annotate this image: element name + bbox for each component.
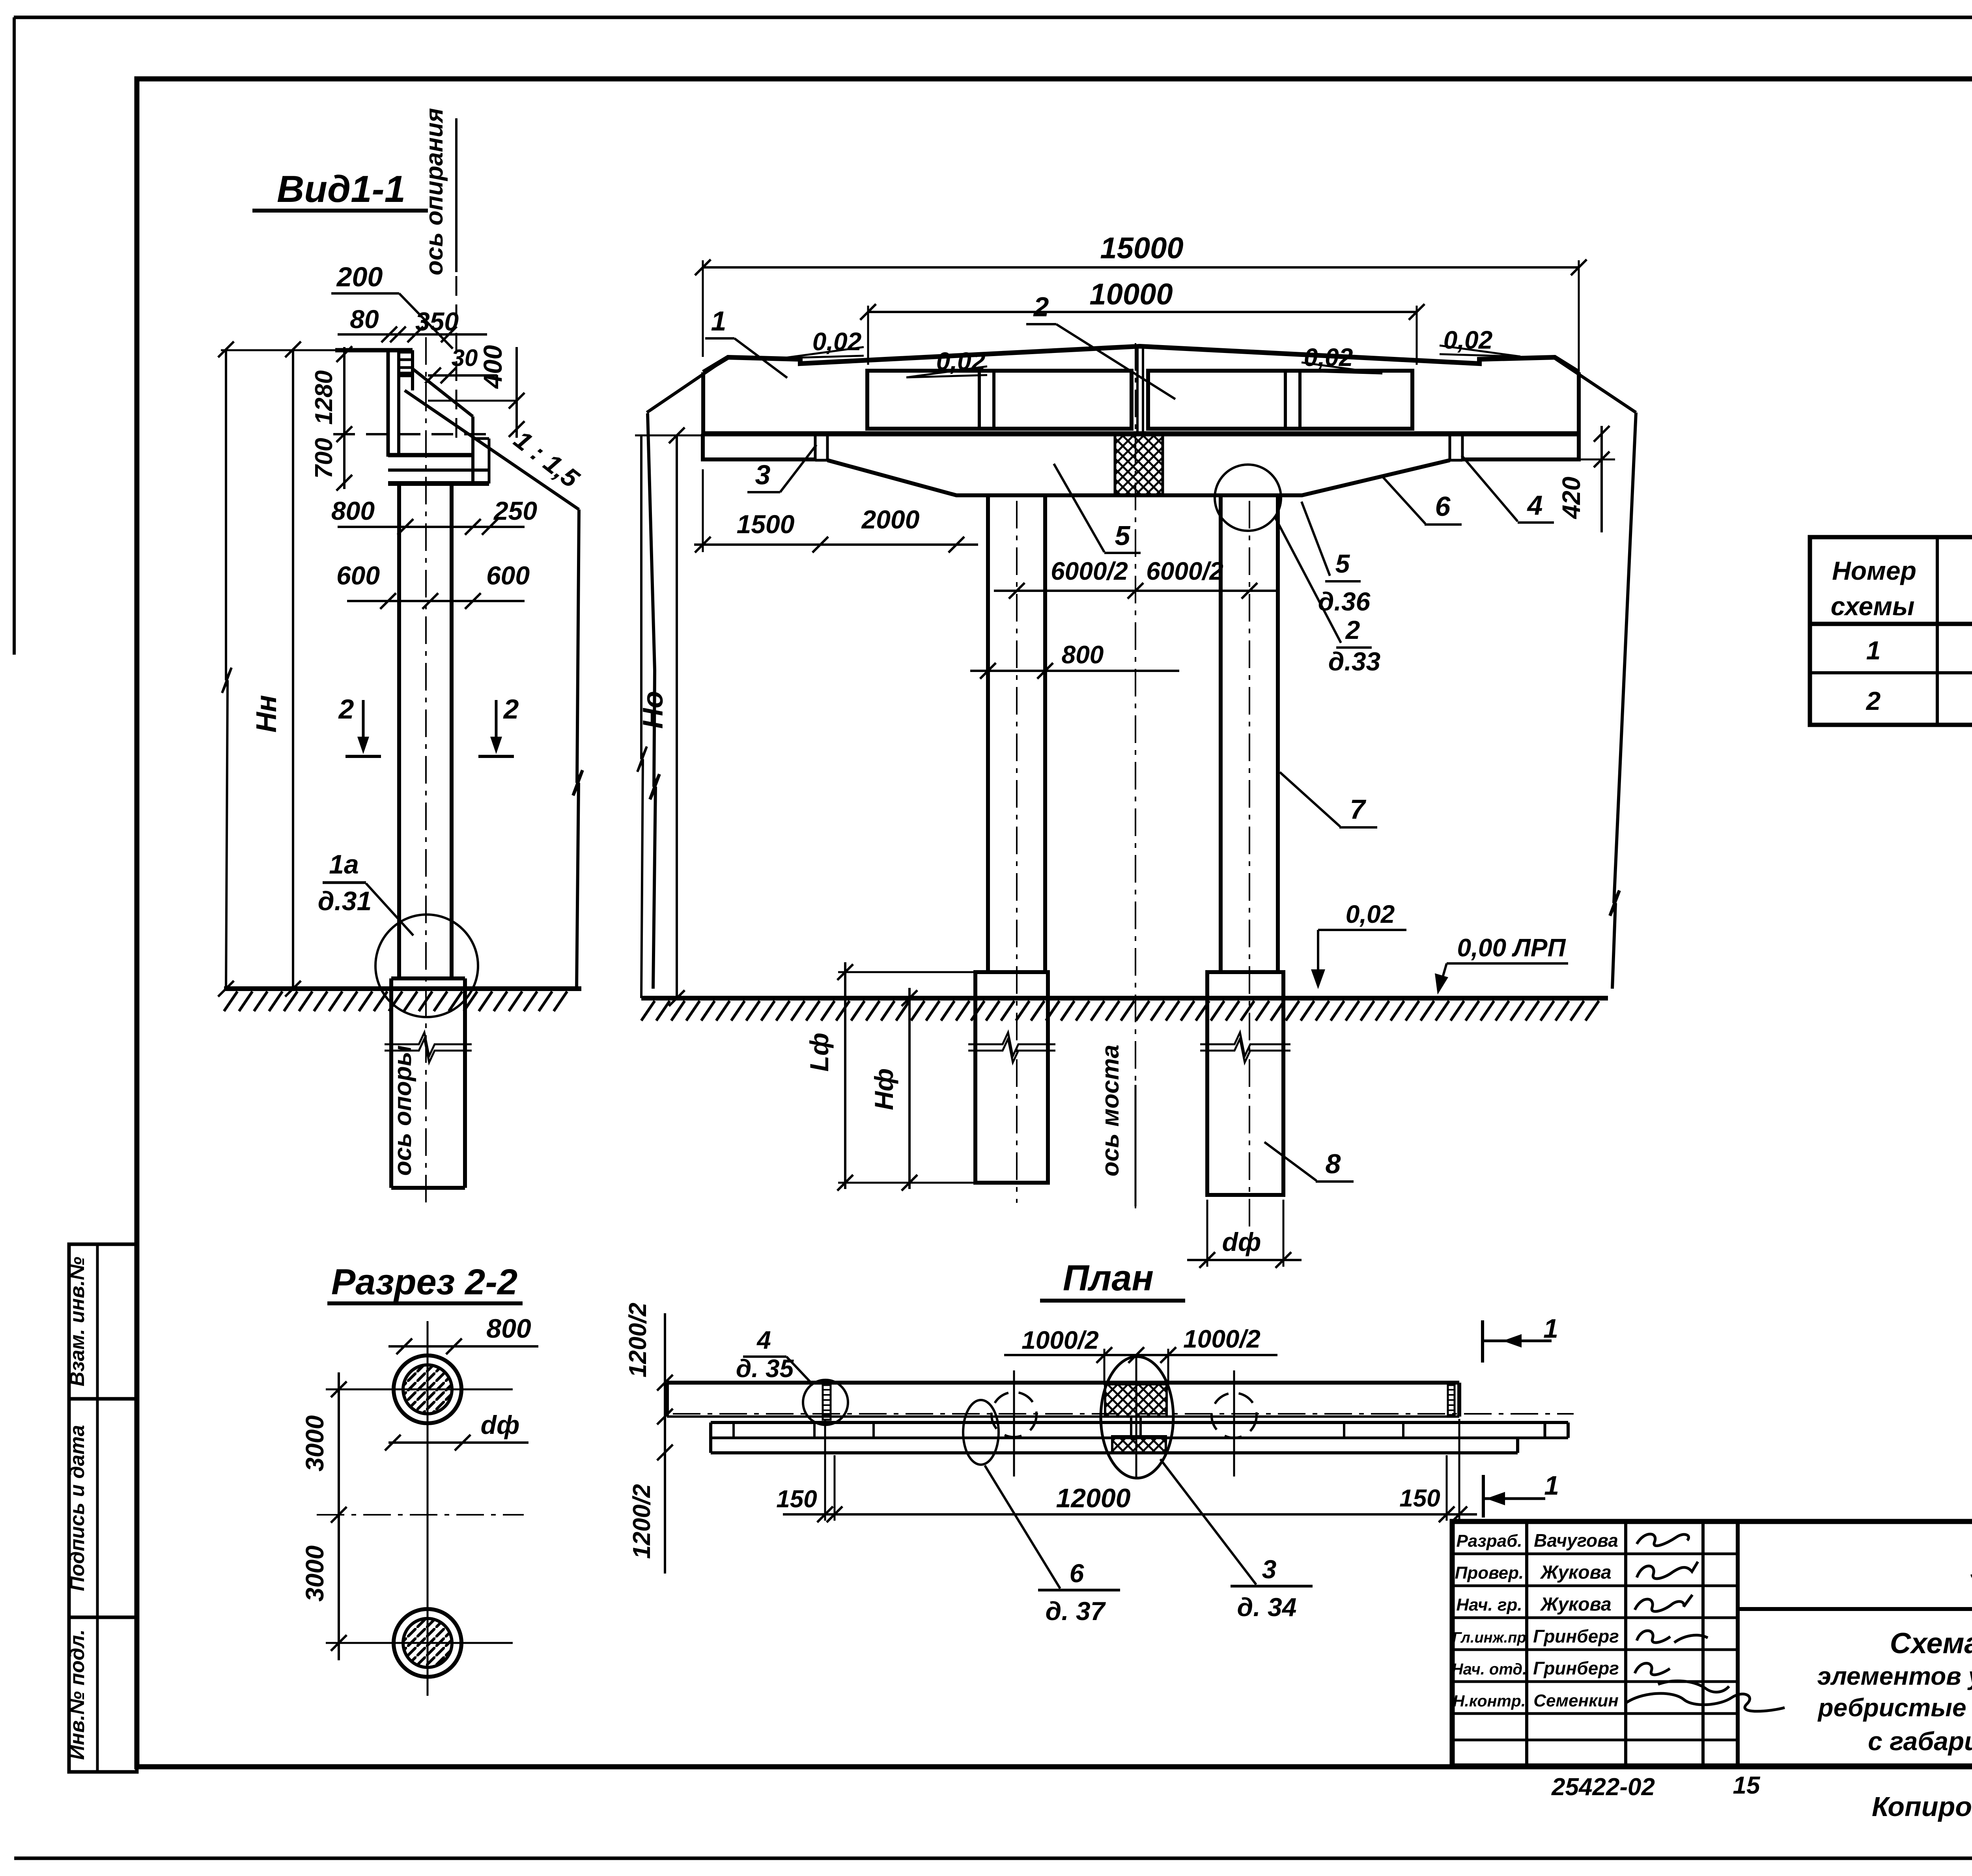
svg-text:200: 200: [336, 261, 383, 292]
ground hatching left view: [224, 991, 567, 1011]
svg-text:4: 4: [756, 1326, 771, 1354]
svg-text:Схема расположения: Схема расположения: [1890, 1627, 1972, 1659]
svg-text:Номер: Номер: [1832, 556, 1916, 585]
svg-text:1: 1: [1544, 1471, 1559, 1501]
svg-text:д.33: д.33: [1328, 647, 1381, 676]
projection to Нн dim: [221, 349, 335, 351]
svg-text:15000: 15000: [1100, 231, 1183, 265]
slope label 0,02 right outer: [1440, 326, 1520, 357]
label 2 with leader: [1026, 291, 1175, 399]
svg-text:Н.контр.: Н.контр.: [1453, 1692, 1526, 1710]
wall top edge: [335, 348, 413, 353]
expansion joint crosshatch upper plan: [1105, 1384, 1167, 1417]
pile break symbol: [385, 1032, 472, 1062]
column left centerline: [1016, 501, 1018, 1203]
column right centerline: [1249, 501, 1250, 1226]
svg-text:Взам. инв.№: Взам. инв.№: [66, 1257, 89, 1387]
label 5 mid with leader: [1054, 464, 1141, 553]
vertical dim line plan: [657, 1313, 673, 1574]
svg-text:1200/2: 1200/2: [624, 1303, 652, 1378]
svg-text:15: 15: [1733, 1772, 1761, 1799]
pile dashed circle left plan: [992, 1392, 1036, 1437]
left span beam block: [867, 371, 1132, 429]
svg-text:1а: 1а: [329, 849, 359, 879]
dimension dф under right pile: [1187, 1200, 1302, 1268]
dimension Но lines: [635, 427, 703, 1006]
svg-text:Инв.№ подл.: Инв.№ подл.: [66, 1629, 89, 1760]
signature squiggle 4: [1637, 1631, 1708, 1643]
svg-text:3: 3: [755, 459, 771, 490]
detail circle on left strip: [803, 1380, 848, 1425]
circle centerlines upper: [326, 1321, 513, 1696]
svg-text:10000: 10000: [1089, 278, 1173, 311]
label 4 with leader: [1462, 455, 1554, 523]
expansion joint crosshatch lower plan: [1112, 1436, 1166, 1453]
slope label 0,02 left outer: [783, 327, 864, 358]
outer page border bottom: [14, 1857, 1972, 1860]
svg-text:25422-02: 25422-02: [1551, 1773, 1655, 1801]
svg-text:2: 2: [1033, 291, 1049, 322]
bridge axis centerline: [1135, 343, 1136, 1210]
ground hatching central view: [641, 1001, 1599, 1021]
label 6 д.37 with leader: [985, 1465, 1120, 1626]
svg-text:ось моста: ось моста: [1097, 1045, 1124, 1176]
label 5 д.36 with leader: [1302, 502, 1371, 616]
svg-text:ребристые пролетные строения: ребристые пролетные строения: [1817, 1693, 1972, 1722]
foundation pile left view: [391, 978, 465, 1188]
svg-text:Нач. отд.: Нач. отд.: [1452, 1661, 1527, 1678]
abutment cap bottom outline: [703, 434, 1579, 495]
detail ellipse callout 6: [963, 1400, 999, 1465]
section mark 1 upper: [1483, 1314, 1558, 1363]
level mark 0,00 ЛРП: [1435, 933, 1568, 995]
svg-text:Жукова: Жукова: [1539, 1562, 1611, 1583]
svg-text:5: 5: [1335, 549, 1350, 578]
vertical dimension 3000 3000: [331, 1372, 347, 1660]
deck top outline: [703, 346, 1579, 372]
svg-text:Но: Но: [637, 691, 669, 729]
label 2 д.33 with leader: [1275, 517, 1380, 676]
svg-text:Копировал Киц–: Копировал Киц–: [1872, 1791, 1972, 1822]
svg-text:План: План: [1063, 1258, 1154, 1298]
embankment edge left: [648, 413, 659, 989]
cap front step: [473, 416, 489, 483]
lower pile circle section: [326, 1609, 513, 1677]
svg-text:ось опирания: ось опирания: [421, 108, 448, 275]
footing dashed level line: [333, 433, 489, 435]
document number cell divider: [1738, 1607, 1972, 1611]
svg-text:600: 600: [336, 561, 380, 590]
dimension 420 rotated: [1557, 426, 1615, 532]
wing slab band plan: [711, 1422, 1568, 1453]
slope lower edge to ground: [573, 510, 583, 989]
svg-text:Lф: Lф: [805, 1033, 834, 1072]
back wall lines: [387, 350, 390, 457]
svg-text:250: 250: [493, 496, 537, 525]
slope label 0,02 right inner: [1302, 343, 1382, 373]
svg-text:7: 7: [1350, 794, 1367, 825]
Нн dimension lines: [218, 342, 301, 997]
embankment edge right: [1556, 359, 1636, 989]
expansion joint hatched block: [1115, 435, 1163, 495]
label 4 д.35 with leader: [736, 1326, 813, 1385]
svg-text:1: 1: [711, 306, 726, 336]
svg-text:4: 4: [1527, 490, 1543, 521]
svg-text:3. 503.1 - 104.1 - 5: 3. 503.1 - 104.1 - 5: [1970, 1554, 1972, 1586]
svg-text:ось опоры: ось опоры: [389, 1045, 416, 1176]
abutment cap top: [703, 431, 1579, 437]
signature squiggle 6: [1625, 1693, 1785, 1711]
signature squiggle 3: [1635, 1595, 1692, 1611]
bearing seat block: [399, 352, 413, 376]
dimension Нф: [902, 988, 917, 1191]
svg-text:схемы: схемы: [1831, 592, 1915, 621]
svg-text:0,00 ЛРП: 0,00 ЛРП: [1457, 933, 1566, 962]
middle dash-dot axis: [317, 1514, 524, 1516]
label 8 with leader: [1264, 1142, 1354, 1182]
svg-text:Нач. гр.: Нач. гр.: [1456, 1595, 1522, 1615]
svg-text:Вид1-1: Вид1-1: [277, 168, 405, 210]
deck left end face: [701, 372, 705, 434]
pile axis right plan: [1233, 1370, 1235, 1477]
upper pile circle section: [394, 1355, 461, 1423]
ground line central view: [641, 996, 1608, 1001]
dimension line 80/350: [338, 327, 487, 342]
svg-text:Подпись и дата: Подпись и дата: [66, 1425, 89, 1591]
svg-text:д.31: д.31: [318, 886, 372, 916]
svg-text:150: 150: [776, 1486, 817, 1513]
pile right central view: [1200, 972, 1290, 1195]
bearing axis line: [455, 118, 458, 272]
svg-text:д. 37: д. 37: [1046, 1596, 1106, 1626]
right span beam block: [1148, 371, 1412, 429]
cap beam of abutment: [388, 455, 489, 483]
signature squiggle 2: [1637, 1562, 1698, 1579]
plan bottom dimension line: [783, 1419, 1477, 1522]
svg-text:Провер.: Провер.: [1455, 1563, 1524, 1583]
svg-text:Гринберг: Гринберг: [1533, 1658, 1619, 1678]
svg-text:1: 1: [1543, 1314, 1558, 1344]
bearing notch right: [1450, 435, 1462, 460]
ground line left view: [224, 986, 581, 991]
title block left columns: [1527, 1521, 1738, 1766]
outer page border top: [14, 16, 1972, 19]
svg-text:dф: dф: [481, 1410, 520, 1439]
svg-text:1200/2: 1200/2: [628, 1484, 655, 1559]
plan axis dash-dot: [673, 1413, 1574, 1415]
wall front edge: [411, 350, 414, 390]
svg-text:3: 3: [1262, 1555, 1277, 1584]
svg-text:6: 6: [1070, 1559, 1085, 1588]
svg-text:Разраб.: Разраб.: [1456, 1531, 1522, 1551]
schemes table: [1810, 537, 1972, 725]
svg-text:600: 600: [486, 561, 530, 590]
svg-text:12000: 12000: [1056, 1483, 1130, 1513]
deck right end face: [1577, 372, 1581, 434]
joint detail ellipse callout: [1101, 1357, 1173, 1478]
joint axis vertical plan: [1135, 1357, 1137, 1478]
svg-text:2000: 2000: [861, 505, 920, 534]
svg-text:Нн: Нн: [251, 695, 282, 732]
svg-text:Гл.инж.пр: Гл.инж.пр: [1452, 1630, 1526, 1646]
embankment slope 1:1.5: [405, 390, 579, 510]
svg-text:2: 2: [338, 694, 354, 724]
svg-text:Жукова: Жукова: [1539, 1594, 1611, 1615]
upper slope edge: [413, 369, 473, 416]
svg-text:800: 800: [486, 1314, 531, 1344]
svg-text:Гринберг: Гринберг: [1533, 1626, 1619, 1646]
svg-text:1500: 1500: [737, 510, 795, 539]
svg-text:400: 400: [478, 345, 507, 389]
signature squiggle 1: [1637, 1534, 1689, 1546]
svg-text:6: 6: [1435, 491, 1451, 522]
svg-text:Семенкин: Семенкин: [1533, 1691, 1619, 1710]
svg-text:0,02: 0,02: [1346, 900, 1395, 928]
column left shaft: [988, 495, 1045, 972]
column right shaft: [1221, 495, 1278, 972]
svg-text:Нф: Нф: [869, 1068, 898, 1110]
svg-text:80: 80: [350, 304, 379, 334]
detail callout 1а д.31: [318, 849, 478, 1017]
section mark 2 left: [338, 694, 381, 756]
bearing strip right plan: [1448, 1385, 1455, 1415]
svg-text:dф: dф: [1222, 1227, 1261, 1256]
bearing strip left plan: [823, 1385, 831, 1420]
svg-text:8: 8: [1326, 1148, 1341, 1179]
svg-text:3000: 3000: [301, 1415, 329, 1471]
label 7 with leader: [1280, 772, 1377, 827]
svg-text:2: 2: [1866, 686, 1881, 715]
svg-text:6000/2: 6000/2: [1051, 557, 1128, 585]
svg-text:Вачугова: Вачугова: [1534, 1530, 1618, 1551]
label 1 with leader: [705, 306, 787, 378]
dimension Lф: [837, 962, 975, 1191]
approach slab line left: [647, 358, 727, 413]
section mark 1 lower: [1483, 1471, 1559, 1518]
label 3 д.34 with leader: [1160, 1459, 1313, 1622]
column centerline: [425, 337, 427, 1206]
svg-text:элементов устоев 20К 150.Нн по: элементов устоев 20К 150.Нн под: [1817, 1662, 1972, 1690]
joint gap verticals plan: [1131, 1417, 1141, 1436]
pile left central view: [968, 972, 1055, 1183]
left stamp box: [69, 1244, 137, 1772]
svg-text:1000/2: 1000/2: [1183, 1325, 1261, 1353]
title block left rows: [1452, 1554, 1738, 1740]
svg-text:5: 5: [1115, 520, 1131, 551]
slope label 0,02 at ground: [1311, 900, 1406, 989]
label 3 with leader: [747, 445, 816, 492]
svg-text:2: 2: [1345, 615, 1360, 644]
svg-text:800: 800: [331, 496, 375, 525]
detail circle at column top: [1215, 465, 1281, 531]
svg-text:700: 700: [310, 438, 338, 478]
deck joint gap lines: [1137, 346, 1143, 434]
pile axis left plan: [1013, 1370, 1015, 1477]
svg-text:1280: 1280: [310, 370, 338, 425]
svg-text:Разрез 2-2: Разрез 2-2: [331, 1262, 517, 1302]
svg-text:420: 420: [1557, 477, 1585, 520]
pile dashed circle right plan: [1212, 1393, 1257, 1438]
svg-text:с габаритом Г-10+2×0,75: с габаритом Г-10+2×0,75: [1868, 1727, 1972, 1756]
svg-text:2: 2: [503, 694, 519, 724]
section mark 2 right: [478, 694, 519, 756]
svg-text:д. 35: д. 35: [736, 1354, 794, 1383]
column shaft left view: [399, 483, 452, 978]
svg-text:3000: 3000: [301, 1546, 329, 1602]
cap band plan: [667, 1381, 1459, 1385]
svg-text:6000/2: 6000/2: [1146, 557, 1223, 585]
label 6 with leader: [1381, 475, 1462, 525]
svg-text:д. 34: д. 34: [1237, 1592, 1297, 1622]
outer page border left (fades mid-page): [13, 17, 16, 655]
svg-text:150: 150: [1399, 1485, 1440, 1512]
left dim line 1280/700: [336, 346, 352, 491]
bearing notch left: [815, 435, 827, 460]
svg-text:1: 1: [1866, 636, 1881, 665]
title block outline: [1452, 1521, 1972, 1766]
svg-text:1000/2: 1000/2: [1021, 1326, 1099, 1354]
slope label 0,02 left inner: [906, 347, 987, 377]
signature squiggle 5: [1635, 1663, 1729, 1692]
svg-text:800: 800: [1062, 640, 1104, 669]
